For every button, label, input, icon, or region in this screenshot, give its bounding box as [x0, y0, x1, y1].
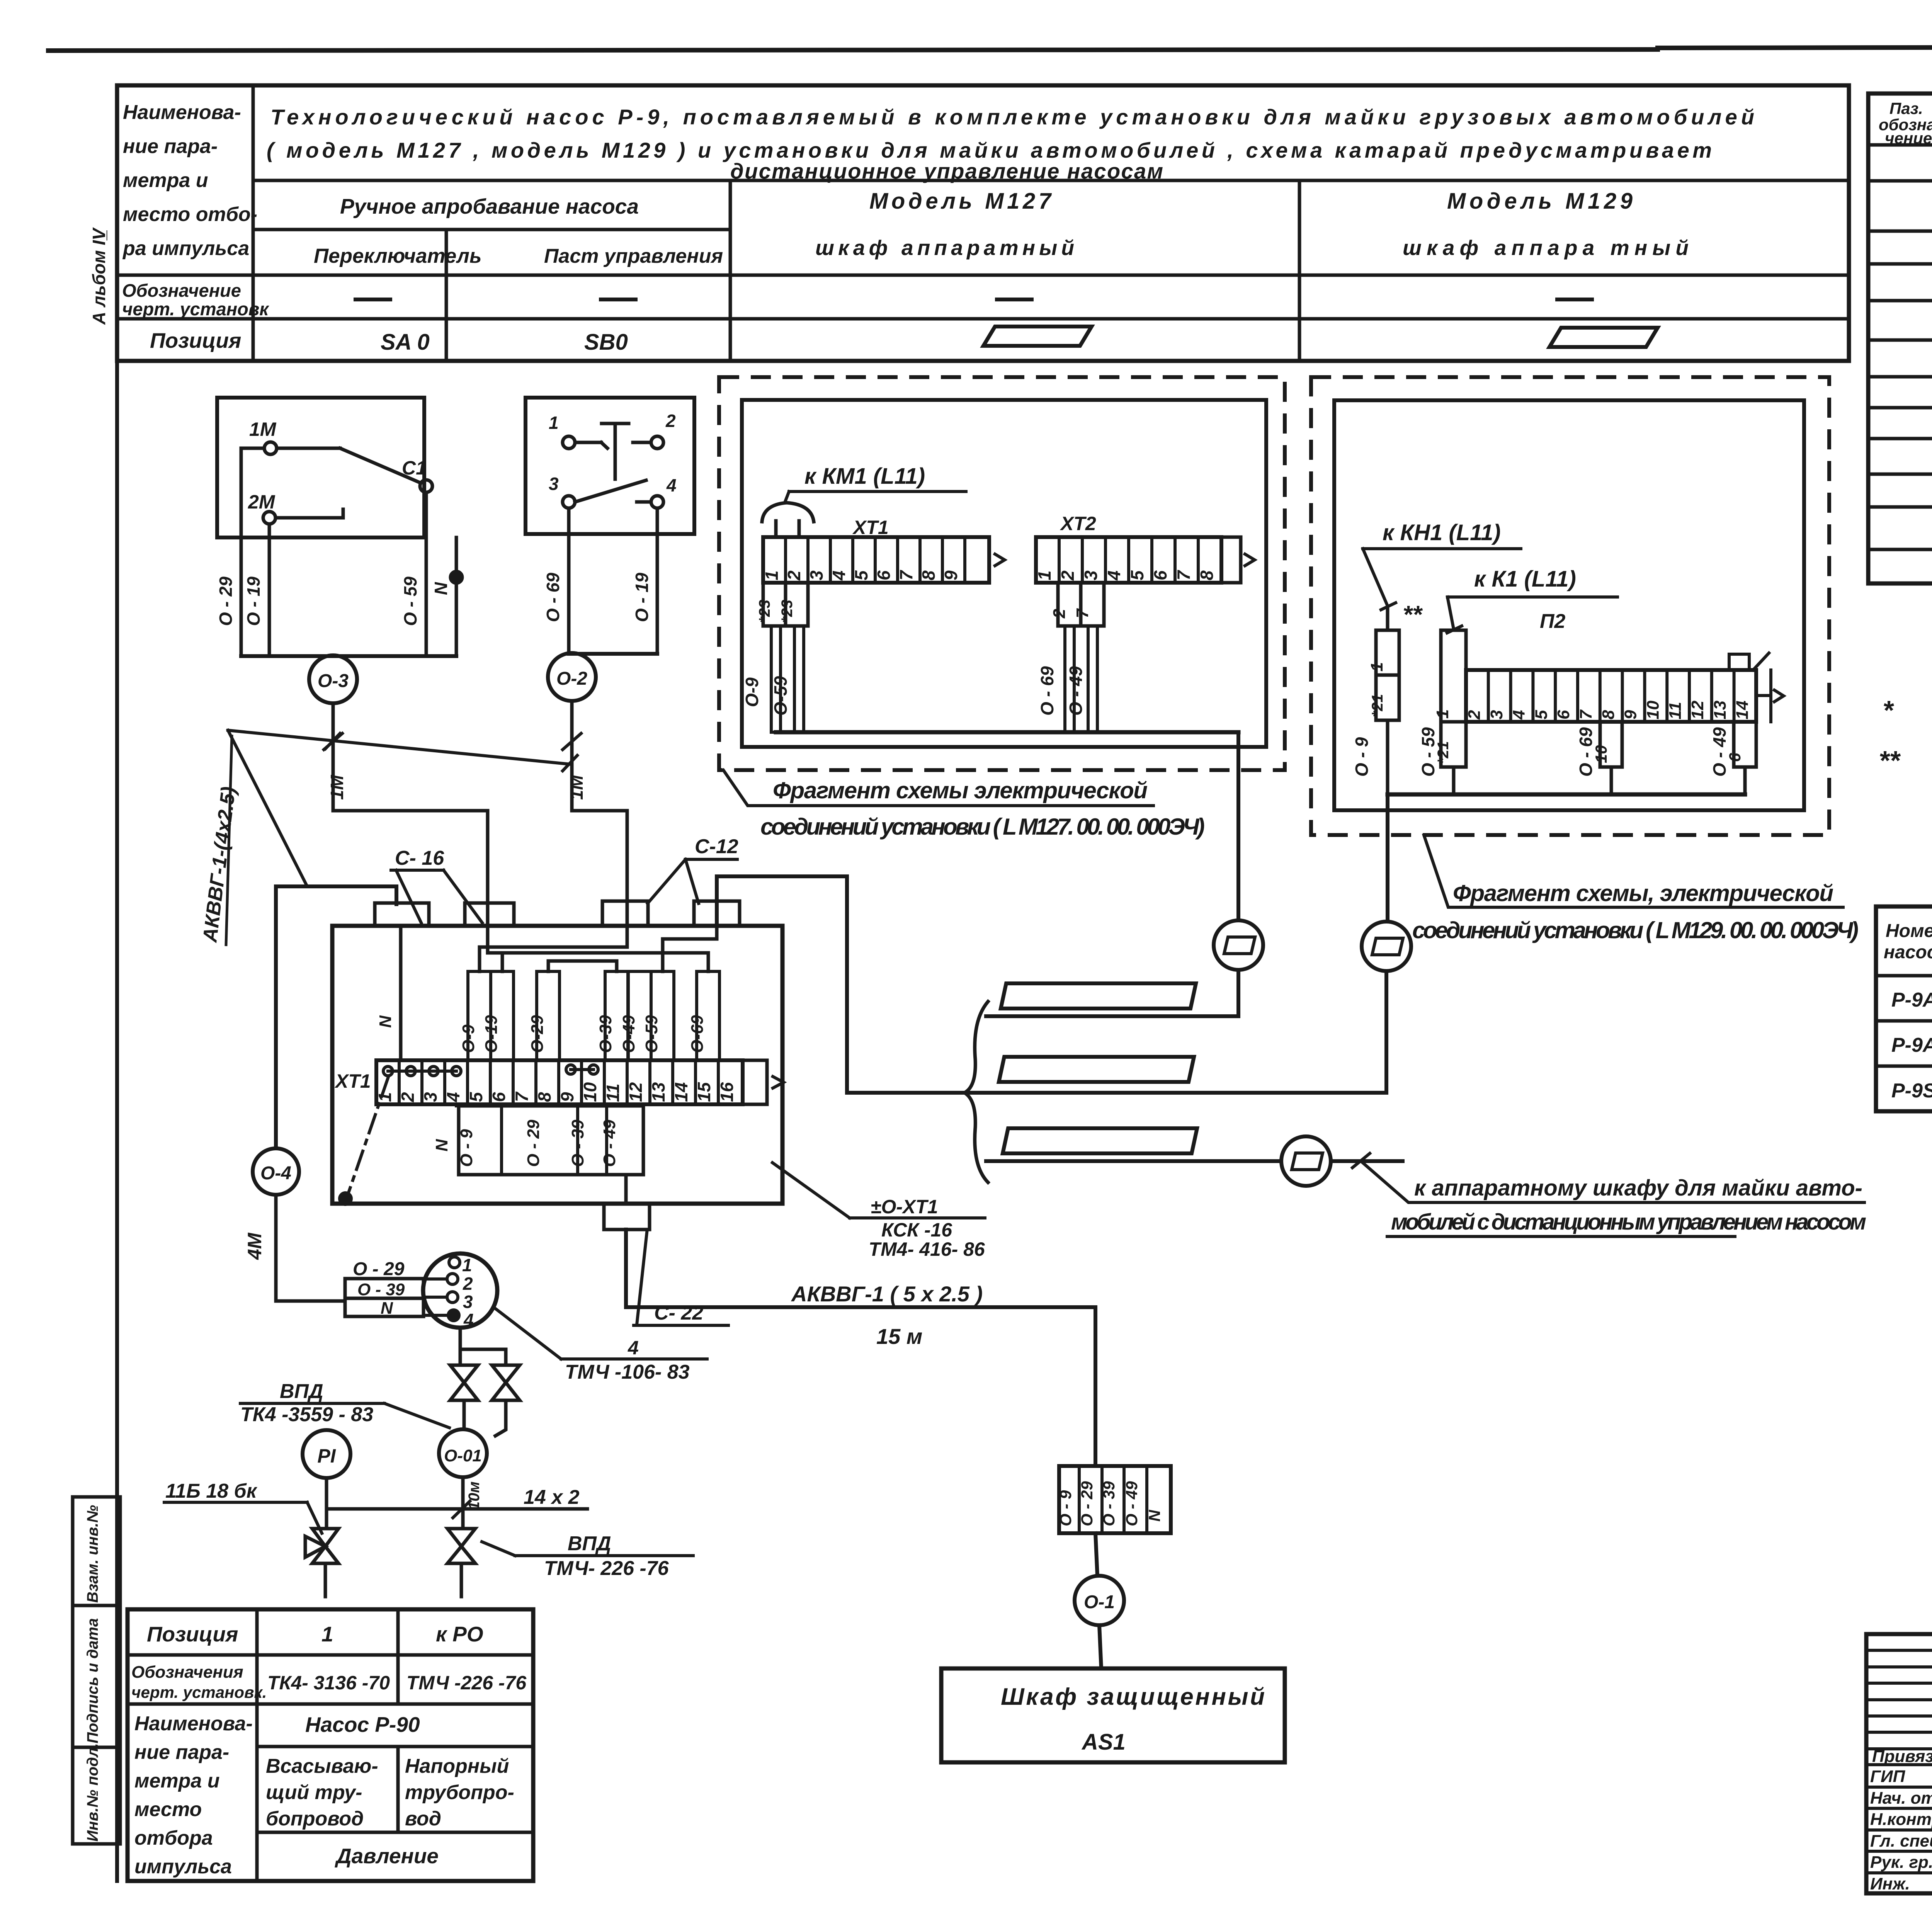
svg-text:ГИП: ГИП — [1870, 1767, 1906, 1786]
circle O-3 — [309, 655, 357, 703]
terminal strip XT1 body — [376, 1060, 743, 1104]
svg-text:4: 4 — [463, 1310, 474, 1330]
XT1 jumper 9-10 — [566, 1065, 575, 1074]
svg-text:14: 14 — [671, 1082, 691, 1102]
svg-text:ние пара-: ние пара- — [134, 1741, 229, 1764]
svg-text:О - 69: О - 69 — [543, 573, 563, 622]
switch SA0 contact C1 — [420, 480, 432, 492]
trunk bar 3 parallelogram — [1003, 1128, 1197, 1153]
header table column line col1 — [252, 85, 255, 361]
fragment2 P2 top tab — [1729, 654, 1749, 670]
below-strip marker box group — [459, 1106, 643, 1175]
wire tab4 to trunk — [717, 876, 847, 1093]
svg-text:О - 29: О - 29 — [216, 577, 236, 626]
svg-text:Обозначение: Обозначение — [122, 280, 241, 301]
svg-text:1М: 1М — [327, 774, 347, 800]
valve VPD 2 — [492, 1365, 520, 1383]
svg-text:О - 9: О - 9 — [1056, 1490, 1075, 1526]
svg-text:9: 9 — [1621, 710, 1640, 719]
svg-text:вод: вод — [405, 1808, 441, 1830]
fragment1 inner box — [742, 400, 1266, 747]
marker block O-9..N — [1059, 1466, 1171, 1533]
svg-text:4: 4 — [1510, 710, 1529, 720]
XT1 strip extension and arrow — [743, 1059, 767, 1062]
fragment2 marker 10 under cell7 — [1600, 722, 1622, 767]
svg-text:О - 39: О - 39 — [1100, 1481, 1118, 1526]
parts table horizontals — [1868, 143, 1932, 147]
header table row line under manual test — [253, 228, 730, 231]
fragment2 left stem wire — [1386, 720, 1389, 794]
svg-text:шкаф аппаратный: шкаф аппаратный — [815, 236, 1074, 260]
fragment2 P2 strip — [1466, 670, 1756, 722]
wire O-1 to AS1 — [1099, 1625, 1101, 1668]
connector pin 3 — [447, 1292, 458, 1303]
stub O-69 — [567, 508, 571, 654]
svg-text:метра и: метра и — [134, 1770, 220, 1792]
svg-text:О - 49: О - 49 — [1066, 666, 1086, 716]
routing trace outer — [488, 953, 708, 971]
header table outline — [117, 85, 1849, 361]
circle O-4 — [253, 1148, 299, 1195]
cable tick marks — [325, 733, 340, 749]
fragment2 exit wire — [1386, 794, 1389, 922]
fragment1 stem O-69 — [1065, 626, 1074, 732]
svg-text:SB0: SB0 — [584, 330, 628, 355]
box top tab 3 — [602, 901, 648, 926]
SB0 wire c4 — [637, 500, 651, 504]
trunk bar 1 parallelogram — [1001, 983, 1196, 1009]
XT1 divider 2 — [420, 1060, 423, 1104]
svg-text:Позиция: Позиция — [150, 328, 241, 352]
marker box О-49 above strip — [628, 971, 651, 1060]
svg-text:О - 59: О - 59 — [1418, 727, 1438, 777]
svg-text:2: 2 — [784, 570, 804, 581]
svg-text:Р-9S: Р-9S — [1891, 1080, 1932, 1102]
SB0 contact 2 — [651, 436, 663, 449]
svg-text:4: 4 — [829, 570, 849, 581]
svg-text:11: 11 — [1666, 702, 1685, 719]
fragment1 exit wire — [1236, 732, 1240, 920]
svg-text:12: 12 — [626, 1082, 646, 1102]
fragment1 strip end arrow — [995, 554, 1005, 566]
svg-text:5: 5 — [851, 570, 871, 580]
svg-text:Фрагмент схемы электрической: Фрагмент схемы электрической — [773, 777, 1148, 803]
left frame line — [115, 85, 119, 1881]
svg-text:А льбом IV̲: А льбом IV̲ — [89, 227, 109, 325]
connector pin 1 — [449, 1257, 460, 1268]
svg-text:*23: *23 — [756, 600, 773, 623]
box top tab 4 — [694, 901, 740, 926]
marker box О-59 above strip — [651, 971, 674, 1060]
fragment1 stem O-9 — [771, 626, 781, 732]
svg-text:N: N — [1145, 1509, 1163, 1522]
svg-text:7: 7 — [1577, 709, 1595, 719]
svg-text:О-59: О-59 — [770, 676, 791, 716]
fragment1 marker *23 a — [763, 583, 786, 626]
svg-text:**: ** — [1879, 745, 1901, 776]
box top tab 2 — [465, 903, 514, 926]
fragment1 marker *23 b — [786, 583, 808, 626]
dash in post cell — [601, 298, 636, 301]
svg-text:О - 19: О - 19 — [632, 573, 652, 622]
wire valve4 tail — [460, 1563, 463, 1597]
fragment1 dashed border — [719, 377, 1285, 770]
fragment2 marker 6 under cell14 — [1734, 722, 1756, 767]
svg-text:О - 19: О - 19 — [243, 577, 264, 626]
svg-text:Модель М129: Модель М129 — [1447, 189, 1633, 214]
svg-text:1М: 1М — [249, 418, 277, 440]
wire PI down — [325, 1478, 328, 1529]
svg-text:к аппаратному шкафу для ма: к аппаратному шкафу для майки авто- — [1414, 1175, 1862, 1201]
valve branch wire — [460, 1349, 506, 1365]
wire O-2 to tab3 — [572, 809, 627, 813]
valve2 drain stub — [495, 1400, 506, 1436]
svg-text:1: 1 — [762, 570, 782, 580]
svg-text:Инж.: Инж. — [1870, 1874, 1910, 1893]
svg-text:О - 49: О - 49 — [1709, 727, 1730, 777]
svg-text:Фрагмент схемы, электрической: Фрагмент схемы, электрической — [1453, 880, 1833, 906]
svg-text:N: N — [376, 1015, 395, 1028]
svg-text:Подпись и дата: Подпись и дата — [84, 1618, 101, 1743]
svg-text:к КН1 (L11): к КН1 (L11) — [1383, 520, 1501, 545]
svg-text:О - 69: О - 69 — [1576, 727, 1596, 777]
svg-text:2: 2 — [463, 1274, 473, 1294]
svg-text:КСК -16: КСК -16 — [881, 1219, 952, 1241]
leader C-16 — [396, 870, 421, 923]
svg-text:3: 3 — [420, 1092, 440, 1102]
svg-text:О - 49: О - 49 — [1122, 1481, 1141, 1526]
XT1 divider 4 — [466, 1060, 469, 1104]
connector circle body — [423, 1253, 497, 1328]
label 10m — [453, 1501, 470, 1518]
svg-text:место: место — [134, 1798, 202, 1821]
svg-text:Напорный: Напорный — [405, 1755, 509, 1777]
svg-text:Всасываю-: Всасываю- — [266, 1755, 378, 1777]
svg-text:1: 1 — [375, 1092, 395, 1102]
svg-text:13: 13 — [1711, 701, 1730, 719]
sidebar box inv — [73, 1747, 120, 1844]
connector pin 4 — [448, 1310, 459, 1321]
dash in M129 cell — [1557, 298, 1592, 301]
svg-text:6: 6 — [1150, 570, 1170, 580]
gauge PI — [303, 1430, 350, 1478]
fragment1 stem O-49 — [1088, 626, 1097, 732]
svg-text:16: 16 — [717, 1082, 737, 1102]
leader to P2 — [1447, 597, 1454, 629]
svg-text:4М: 4М — [244, 1232, 265, 1260]
svg-text:О-59: О-59 — [642, 1015, 661, 1053]
svg-text:5: 5 — [466, 1092, 486, 1102]
fragment2 stem O-69 — [1610, 767, 1613, 794]
marker box О-39 above strip — [605, 971, 628, 1060]
box top tab 1 — [375, 903, 429, 926]
header table column line switch/post — [445, 230, 448, 361]
fragment2 clamp boxes 1/*21 — [1376, 630, 1399, 675]
svg-text:ТМЧ -226 -76: ТМЧ -226 -76 — [406, 1672, 527, 1694]
svg-text:О - 29: О - 29 — [1078, 1481, 1096, 1526]
svg-text:Переключатель: Переключатель — [314, 245, 481, 267]
svg-text:Паст управления: Паст управления — [544, 245, 723, 267]
bottom table horizontals — [128, 1653, 533, 1657]
collector bus SB0 — [569, 652, 657, 656]
fragment2 dashed border — [1311, 377, 1829, 835]
stub O-19 right — [656, 508, 659, 654]
wire C1 down — [425, 492, 428, 537]
fragment2 inner box — [1334, 400, 1804, 810]
fragment2 stem O-49 — [1743, 767, 1747, 794]
connector marker box N — [345, 1298, 423, 1316]
svg-text:3: 3 — [1487, 710, 1506, 719]
signature table thin rows — [1866, 1649, 1932, 1652]
svg-text:**: ** — [1403, 600, 1423, 628]
applicability table horizontals — [1876, 974, 1932, 978]
fragment1 stem O-59 — [794, 626, 804, 732]
wire 1M to left — [241, 447, 264, 450]
coupler circle 3 — [1281, 1136, 1331, 1186]
XT1 divider 15 — [717, 1060, 720, 1104]
pushbutton SB0 box — [526, 398, 694, 534]
XT1 divider 10 — [603, 1060, 606, 1104]
XT1 jumper 1-4 — [383, 1066, 393, 1076]
circle O-2 — [548, 653, 596, 701]
svg-text:дистанционное управление на: дистанционное управление насосам — [730, 159, 1163, 183]
cable brace — [964, 1002, 988, 1182]
svg-text:14: 14 — [1733, 701, 1752, 719]
svg-text:2: 2 — [1050, 609, 1069, 619]
svg-text:15 м: 15 м — [876, 1324, 922, 1349]
svg-text:3: 3 — [1081, 570, 1101, 580]
XT1 divider 12 — [648, 1060, 651, 1104]
svg-text:АКВВГ-1-(4х2.5): АКВВГ-1-(4х2.5) — [199, 786, 240, 944]
svg-text:*21: *21 — [1369, 694, 1386, 717]
svg-text:3: 3 — [806, 570, 827, 580]
wire O-3 down — [332, 703, 335, 811]
svg-text:ТК4 -3559 - 83: ТК4 -3559 - 83 — [240, 1403, 373, 1426]
svg-text:к РО: к РО — [436, 1622, 483, 1646]
svg-text:С- 22: С- 22 — [654, 1302, 703, 1324]
svg-text:трубопро-: трубопро- — [405, 1781, 514, 1804]
coupler circle 1 — [1214, 920, 1263, 970]
junction box KSK-16 body — [332, 926, 782, 1204]
svg-text:О - 29: О - 29 — [353, 1259, 405, 1279]
SB0 button symbol — [602, 422, 629, 425]
leader VPD TK4 — [384, 1403, 449, 1428]
stub O-29 — [240, 537, 243, 656]
svg-text:11Б 18 бк: 11Б 18 бк — [165, 1480, 258, 1502]
stub O-59 — [425, 537, 428, 656]
XT1 divider 3 — [443, 1060, 446, 1104]
svg-text:О-69: О-69 — [688, 1015, 707, 1053]
cable mark slash 1M right — [563, 733, 581, 750]
svg-text:6: 6 — [489, 1092, 509, 1102]
svg-text:9: 9 — [557, 1092, 577, 1102]
svg-text:*: * — [1883, 695, 1894, 725]
fragment2 P2 end arrow — [1756, 694, 1771, 697]
fragment1 XT2 extension arrow — [1221, 536, 1241, 539]
svg-text:Нач. отд.: Нач. отд. — [1870, 1789, 1932, 1808]
marker box О-69 above strip — [697, 971, 719, 1060]
fragment2 caption leader — [1424, 835, 1843, 907]
trunk line 3 — [986, 1159, 1281, 1163]
svg-text:4: 4 — [666, 475, 677, 495]
svg-text:О-1: О-1 — [1084, 1592, 1115, 1612]
svg-text:ВПД: ВПД — [280, 1380, 323, 1403]
valve VPD 1 — [450, 1365, 478, 1383]
svg-text:мобилей с дистанционным упра: мобилей с дистанционным управлением насо… — [1391, 1209, 1866, 1235]
svg-text:10: 10 — [1643, 701, 1662, 719]
svg-text:4: 4 — [443, 1092, 463, 1102]
routing trace tab3 — [480, 901, 627, 971]
svg-text:15: 15 — [694, 1082, 714, 1102]
trunk line 1 — [986, 1014, 1238, 1018]
svg-text:Ручное апробавание насоса: Ручное апробавание насоса — [340, 194, 639, 218]
leader to ** clamp — [1363, 549, 1388, 606]
svg-text:РI: РI — [317, 1445, 336, 1467]
svg-text:отбора: отбора — [134, 1827, 213, 1849]
svg-text:Н.контр.: Н.контр. — [1870, 1810, 1932, 1829]
switch SA0 contact 1M — [264, 442, 277, 454]
stub O-19 — [268, 537, 271, 656]
svg-text:7: 7 — [896, 570, 916, 580]
leader C-12 — [648, 859, 685, 903]
svg-text:О-2: О-2 — [556, 668, 587, 689]
XT1 divider 5 — [489, 1060, 492, 1104]
header table column line post/M127 — [729, 180, 732, 361]
wire 1M fixed contact — [277, 447, 340, 450]
position symbol parallelogram M129 — [1549, 328, 1658, 347]
svg-text:11: 11 — [603, 1083, 623, 1102]
svg-text:соединений установки ( L М127: соединений установки ( L М127. 00. 00. 0… — [760, 814, 1205, 840]
svg-text:Паз.: Паз. — [1889, 99, 1923, 117]
svg-text:1: 1 — [549, 413, 559, 433]
coupler circle 2 — [1362, 922, 1411, 971]
fragment1 collector wire — [776, 730, 1238, 735]
svg-text:шкаф аппара тный: шкаф аппара тный — [1403, 236, 1689, 260]
svg-text:1: 1 — [1367, 662, 1386, 672]
svg-text:Инв.№ подл.: Инв.№ подл. — [84, 1743, 101, 1842]
svg-text:14 х 2: 14 х 2 — [524, 1486, 580, 1509]
svg-text:Насос Р-90: Насос Р-90 — [305, 1713, 420, 1736]
svg-text:О-39: О-39 — [596, 1015, 615, 1053]
svg-text:Наименова-: Наименова- — [134, 1713, 253, 1735]
svg-text:О-9: О-9 — [459, 1024, 478, 1053]
svg-text:О - 59: О - 59 — [400, 577, 420, 626]
svg-text:О - 39: О - 39 — [357, 1280, 405, 1299]
svg-text:Номер: Номер — [1886, 921, 1932, 941]
transmitter O-01 — [439, 1429, 487, 1477]
svg-text:Привязан: Привязан — [1872, 1747, 1932, 1766]
connector pin 2 — [447, 1274, 458, 1284]
wire valve3 tail — [324, 1563, 327, 1597]
earth dash-dot line — [347, 1078, 388, 1197]
svg-text:О - 39: О - 39 — [568, 1119, 587, 1167]
trunk line 2 — [847, 1091, 1386, 1095]
svg-text:2М: 2М — [248, 491, 276, 513]
svg-text:О-49: О-49 — [619, 1015, 638, 1053]
routing trace tab2 — [488, 904, 502, 971]
svg-text:12: 12 — [1688, 701, 1707, 719]
cable AKVVG-1(5x2.5) run — [626, 1307, 1095, 1466]
svg-text:О-3: О-3 — [318, 671, 349, 691]
svg-text:4: 4 — [1104, 570, 1124, 581]
svg-text:7: 7 — [512, 1091, 532, 1102]
cabinet AS1 box — [941, 1668, 1285, 1762]
caption to apparatus cabinet leader — [1361, 1161, 1864, 1202]
cable leader AKVVG-1(4x2.5) — [228, 730, 571, 764]
svg-text:Давление: Давление — [335, 1844, 439, 1868]
svg-text:Р-9А: Р-9А — [1891, 989, 1932, 1011]
circle O-1 — [1075, 1576, 1124, 1625]
svg-text:С- 16: С- 16 — [395, 847, 444, 869]
earth dot — [340, 1193, 351, 1204]
svg-text:Шкаф защищенный: Шкаф защищенный — [1001, 1684, 1265, 1710]
header table column line M127/M129 — [1298, 180, 1301, 361]
fragment2 collector wire — [1388, 793, 1745, 797]
fragment2 stem O-59 — [1452, 767, 1456, 794]
svg-text:1М: 1М — [566, 774, 587, 800]
impulse line 14x2 — [327, 1507, 587, 1511]
brace over XT1 1-2 — [762, 503, 814, 522]
svg-text:5: 5 — [1127, 570, 1147, 580]
switch SA0 contact 2M — [263, 512, 276, 524]
bottom table outline — [128, 1609, 533, 1881]
fragment1 marker 2 — [1058, 583, 1081, 626]
svg-text:1: 1 — [321, 1622, 333, 1646]
svg-text:О-19: О-19 — [482, 1015, 501, 1053]
svg-text:8: 8 — [1197, 570, 1217, 580]
wire valve1 to O-01 — [463, 1400, 466, 1429]
svg-text:9: 9 — [941, 570, 961, 580]
SB0 contact 4 — [651, 496, 663, 508]
svg-text:чение: чение — [1885, 129, 1932, 147]
svg-text:О - 9: О - 9 — [457, 1129, 476, 1167]
svg-text:N: N — [381, 1299, 393, 1318]
svg-text:АКВВГ-1 ( 5 х 2.5 ): АКВВГ-1 ( 5 х 2.5 ) — [791, 1282, 983, 1306]
switch SA0 box — [217, 398, 424, 537]
svg-text:2: 2 — [1058, 570, 1078, 581]
svg-text:N: N — [432, 1139, 451, 1151]
svg-text:ВПД: ВПД — [568, 1532, 611, 1555]
header table row line under selectors — [117, 274, 1849, 277]
svg-text:П2: П2 — [1540, 610, 1565, 633]
valve VPD TMCh-226-76 — [447, 1529, 475, 1546]
svg-text:щий тру-: щий тру- — [266, 1781, 362, 1804]
svg-text:Рук. гр.: Рук. гр. — [1870, 1853, 1932, 1872]
svg-text:1: 1 — [1034, 570, 1054, 580]
bottom table verticals — [255, 1609, 259, 1881]
svg-text:Модель М127: Модель М127 — [869, 189, 1052, 214]
dash in M127 cell — [997, 298, 1032, 301]
connector pin wires — [423, 1277, 447, 1281]
svg-text:Взам. инв.№: Взам. инв.№ — [84, 1505, 101, 1603]
wire O-01 down — [461, 1477, 465, 1529]
svg-text:метра и: метра и — [123, 169, 208, 192]
bottom tab C-22 — [604, 1204, 650, 1230]
svg-text:О - 69: О - 69 — [1037, 666, 1057, 716]
trunk bar 2 parallelogram — [999, 1057, 1194, 1082]
svg-text:насоса: насоса — [1884, 942, 1932, 963]
wire circle2 to line2 — [1384, 971, 1388, 1093]
svg-text:О-29: О-29 — [528, 1015, 547, 1053]
svg-text:бопровод: бопровод — [266, 1808, 364, 1830]
svg-text:АS1: АS1 — [1081, 1730, 1126, 1755]
svg-text:8: 8 — [1599, 710, 1618, 719]
svg-text:Гл. спец.: Гл. спец. — [1870, 1832, 1932, 1850]
svg-text:1: 1 — [1433, 709, 1452, 719]
svg-text:7: 7 — [1173, 570, 1194, 580]
fragment2 stub wire — [1386, 607, 1389, 630]
XT1 divider 6 — [512, 1060, 515, 1104]
